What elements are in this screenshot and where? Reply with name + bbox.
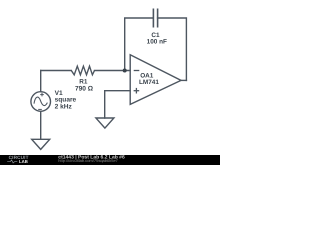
op-amp inverting pin minus sign	[134, 70, 140, 72]
svg-text:LM741: LM741	[139, 79, 159, 86]
wire feedback top right segment	[158, 18, 187, 80]
wire V1 top vertical	[40, 71, 42, 92]
ground symbol at non-inverting input	[96, 118, 114, 128]
wire R1 to op-amp inverting input	[95, 70, 131, 72]
footer bar	[0, 155, 220, 165]
wire non-inverting input to ground	[105, 91, 130, 118]
svg-text:http://circuitlab.com/75sqab6k: http://circuitlab.com/75sqab6k5e7	[58, 158, 118, 163]
node junction dot	[123, 69, 127, 73]
svg-text:R1: R1	[79, 78, 88, 85]
voltage source V1 minus mark	[38, 108, 42, 110]
op-amp OA1 triangle	[130, 55, 181, 105]
svg-text:790 Ω: 790 Ω	[75, 86, 94, 93]
wire V1 bottom to ground	[40, 112, 42, 140]
resistor R1	[71, 66, 94, 75]
capacitor C1	[153, 9, 157, 28]
svg-text:LAB: LAB	[19, 159, 28, 164]
svg-text:100 nF: 100 nF	[147, 39, 167, 46]
svg-text:2 kHz: 2 kHz	[55, 104, 73, 111]
ground symbol below V1	[32, 139, 50, 149]
wire V1 to R1	[41, 70, 72, 72]
voltage source V1 sine glyph	[34, 97, 47, 106]
wire feedback top left segment	[125, 18, 154, 71]
footer CircuitLab logo waveform	[7, 160, 17, 163]
voltage source V1 plus mark	[40, 93, 44, 97]
op-amp non-inverting pin plus sign	[134, 88, 140, 94]
voltage source V1 circle	[31, 92, 51, 112]
wire output stub	[181, 79, 186, 81]
